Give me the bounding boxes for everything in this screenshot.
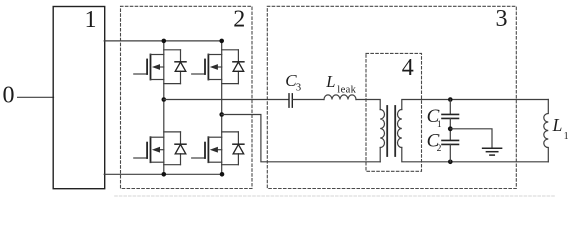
block 1 (converter box) bbox=[53, 7, 104, 189]
node top-right rail junction bbox=[219, 39, 224, 44]
dashed box 2 (inverter stage) bbox=[121, 6, 253, 188]
svg-text:1: 1 bbox=[564, 131, 569, 142]
transistor Q4 (bottom-right MOSFET) bbox=[192, 137, 222, 162]
faint cropped caption remnant along bottom edge bbox=[115, 195, 555, 197]
transformer T1 primary winding bbox=[380, 110, 384, 148]
wire Lleak to transformer primary bbox=[356, 100, 380, 110]
transistor Q1 (top-left MOSFET) bbox=[134, 55, 164, 80]
transistor Q3 (bottom-left MOSFET) bbox=[134, 137, 164, 162]
svg-text:3: 3 bbox=[496, 6, 508, 32]
node secondary top junction bbox=[448, 97, 453, 102]
capacitor C2 bbox=[442, 139, 459, 141]
svg-text:L: L bbox=[552, 115, 563, 135]
diode D3 (bottom-left body diode) bbox=[164, 132, 186, 165]
node A (left bridge midpoint) bbox=[162, 97, 167, 102]
transformer T1 secondary winding bbox=[398, 110, 402, 148]
svg-text:0: 0 bbox=[3, 83, 15, 109]
node B (right bridge midpoint) bbox=[219, 112, 224, 117]
inductor Lleak bbox=[324, 95, 356, 100]
wire left bridge leg bbox=[163, 41, 165, 174]
svg-text:2: 2 bbox=[437, 144, 442, 154]
diode D4 (bottom-right body diode) bbox=[222, 132, 244, 165]
wire secondary bottom lead to output bbox=[402, 148, 549, 162]
wire C3 to Lleak bbox=[293, 99, 324, 101]
node bottom-left rail junction bbox=[162, 172, 167, 177]
node top-left rail junction bbox=[162, 39, 167, 44]
wire C1 to C2 bbox=[449, 118, 451, 140]
inductor L1 bbox=[544, 100, 549, 162]
ground bbox=[483, 148, 502, 155]
svg-text:1: 1 bbox=[437, 120, 442, 130]
diode D1 (top-left body diode) bbox=[164, 50, 186, 84]
dashed box 4 (transformer) bbox=[366, 53, 422, 171]
capacitor C3 bbox=[288, 94, 290, 107]
wire node B to transformer primary (return path) bbox=[222, 115, 381, 162]
node bottom-right rail junction bbox=[220, 172, 225, 177]
wire input to block 1 bbox=[18, 96, 54, 98]
wire bottom DC rail bbox=[104, 173, 222, 175]
svg-text:3: 3 bbox=[296, 83, 301, 94]
dashed box 3 (resonant tank stage) bbox=[267, 6, 516, 188]
wire transformer primary bottom lead bbox=[379, 148, 381, 162]
wire node A to capacitor C3 bbox=[164, 99, 289, 101]
wire C2 bottom lead bbox=[449, 144, 451, 161]
svg-text:4: 4 bbox=[402, 55, 414, 81]
transistor Q2 (top-right MOSFET) bbox=[192, 55, 222, 80]
svg-text:2: 2 bbox=[233, 6, 245, 32]
wire midpoint to ground bbox=[450, 129, 492, 147]
wire C1 top lead bbox=[449, 100, 451, 115]
capacitor C1 bbox=[442, 113, 459, 115]
node C1-C2 midpoint bbox=[448, 126, 453, 131]
node secondary bottom junction bbox=[448, 160, 453, 165]
wire right bridge leg bbox=[221, 41, 223, 174]
svg-text:leak: leak bbox=[337, 84, 356, 95]
svg-text:L: L bbox=[325, 72, 335, 91]
wire secondary top lead to output bbox=[402, 100, 549, 110]
transformer T1 core bbox=[386, 106, 388, 156]
wire top DC rail bbox=[104, 40, 222, 42]
diode D2 (top-right body diode) bbox=[222, 50, 244, 84]
svg-text:1: 1 bbox=[85, 7, 97, 33]
